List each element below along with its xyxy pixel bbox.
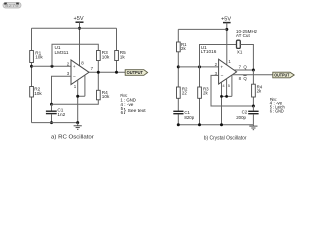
resistor R3 (97, 51, 101, 61)
wire left branch vertical (right circuit) (177, 29, 179, 124)
wire R4 feedback (output to C1 node) (52, 72, 99, 104)
wire left branch vertical (31, 28, 33, 122)
OUTPUT tag (left) (125, 70, 147, 76)
watermark logo top-left (3, 3, 21, 9)
+5V supply bar (right) (223, 22, 231, 24)
capacitor C1 (51, 104, 53, 110)
svg-text:X1: X1 (237, 49, 243, 54)
capacitor C2 (252, 106, 254, 111)
svg-text:b) Crystal Oscillator: b) Crystal Oscillator (204, 136, 247, 142)
resistor R1 (30, 51, 34, 63)
wire hysteresis feedback (R3 top to +input) (52, 44, 98, 66)
svg-text:10k: 10k (34, 91, 42, 96)
node R5/output junction (115, 71, 118, 74)
crystal X1 (237, 40, 241, 48)
node pins 1/4 junction (76, 95, 79, 98)
wire Q output to feedback (234, 69, 254, 71)
node ground wire junction (220, 123, 223, 126)
pins note (left) (120, 93, 146, 115)
node ground rail junction (76, 121, 79, 124)
wire R3 bottom to output node (97, 61, 99, 73)
OUTPUT tag (right) (273, 72, 294, 78)
svg-text:1n2: 1n2 (57, 112, 65, 117)
svg-text:OUTPUT: OUTPUT (127, 70, 144, 75)
wire top +5V rail (left) (32, 27, 117, 29)
wire top +5V rail (right) (178, 28, 227, 30)
node hysteresis feedback junction (51, 65, 54, 68)
svg-text:See text: See text (128, 108, 147, 113)
svg-text:6 : GND: 6 : GND (270, 108, 284, 113)
svg-text:−: − (221, 74, 224, 79)
node C1 bottom rail junction (50, 121, 53, 124)
pins note (right) (270, 97, 285, 114)
svg-text:+: + (73, 65, 76, 70)
resistor R2 (30, 87, 34, 98)
svg-text:}: } (124, 108, 126, 115)
svg-text:8276: 8276 (5, 3, 19, 8)
+5V supply bar (left) (76, 21, 84, 23)
node C1 bottom junction (177, 123, 180, 126)
node crystal feedback junction (198, 65, 201, 68)
wire crystal feedback right segment (240, 45, 253, 71)
node R3 bottom junction (198, 123, 201, 126)
svg-text:22: 22 (182, 91, 187, 96)
svg-text:+5V: +5V (74, 16, 84, 22)
wire inverting input to integrator node (211, 75, 253, 106)
svg-text:C2: C2 (242, 110, 248, 115)
node integrator junction (R4/C2/-in) (252, 105, 255, 108)
svg-text:10k: 10k (102, 94, 110, 99)
svg-text:+: + (220, 66, 223, 71)
svg-text:1k: 1k (120, 54, 126, 59)
svg-text:Q: Q (243, 76, 247, 81)
node R1/R2 divider junction (30, 65, 33, 68)
resistor R2 (right) (177, 87, 181, 98)
resistor R4 (97, 90, 101, 100)
node +5V rail junction (right) (225, 28, 228, 31)
svg-text:2k: 2k (181, 46, 186, 51)
node output/R3/R4 junction (97, 71, 100, 74)
resistor R5 (116, 28, 118, 72)
wire bottom ground rail (right) (178, 124, 253, 126)
wire +5V tap / pin 1 drop (226, 23, 228, 65)
wire non-inverting input (32, 65, 72, 67)
wire +5V tap / pin 8 drop (79, 22, 81, 65)
resistor R4 (right) (252, 70, 254, 106)
node Q output junction (252, 69, 255, 72)
svg-text:200p: 200p (236, 115, 246, 120)
svg-text:Q: Q (243, 65, 247, 70)
svg-text:LT1016: LT1016 (201, 49, 217, 54)
svg-text:2k: 2k (257, 89, 262, 94)
wire bottom ground rail (left) (32, 122, 78, 124)
svg-text:820p: 820p (184, 115, 194, 120)
ground symbol (left) (77, 123, 79, 126)
svg-text:AT Cut: AT Cut (236, 33, 251, 38)
wire non-inverting input (right) (178, 66, 218, 68)
node pins 4/5 junction (220, 95, 223, 98)
svg-text:10k: 10k (102, 54, 110, 59)
wire pins 4/5/6 to ground (222, 75, 232, 125)
node C1 / R4 timing junction (50, 103, 53, 106)
capacitor C1 (right) (173, 110, 183, 112)
wire crystal feedback left segment (200, 45, 237, 67)
resistor R3 (right) (199, 67, 201, 125)
wire pins 1 and 4 to ground (78, 75, 85, 122)
ground symbol (right) (252, 125, 254, 126)
svg-text:10k: 10k (35, 55, 43, 60)
wire inverting input to C1 node (52, 76, 72, 104)
svg-text:−: − (73, 75, 76, 80)
node +input bias junction (177, 65, 180, 68)
wire Q-bar output to OUTPUT tag (232, 74, 272, 76)
node pin 5 junction (225, 95, 228, 98)
svg-text:a) RC Oscillator: a) RC Oscillator (51, 135, 94, 141)
svg-text:+5V: +5V (221, 16, 231, 22)
svg-text:2k: 2k (203, 91, 208, 96)
node +5V rail junction (left) (78, 27, 81, 30)
svg-text:LM311: LM311 (55, 50, 69, 55)
resistor R1 (right) (177, 42, 181, 52)
wire output (left) (89, 71, 125, 73)
svg-text:OUTPUT: OUTPUT (274, 73, 289, 78)
